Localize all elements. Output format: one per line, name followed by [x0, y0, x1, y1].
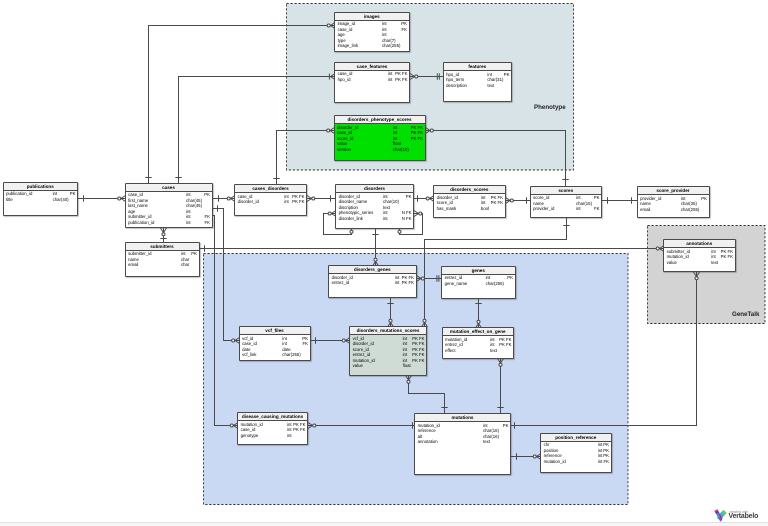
fk disorders_scores-scores	[506, 197, 531, 203]
table position_reference	[540, 433, 612, 474]
table vcf_files	[239, 326, 311, 361]
table disorders_phenotype_scores	[334, 115, 426, 161]
fk cases_disorders-disorders	[307, 195, 336, 201]
fk vcf_files-cases	[213, 205, 240, 343]
table publications	[3, 182, 79, 217]
fk disorders-self1	[324, 211, 354, 235]
table genes	[441, 266, 516, 299]
fk cases-publications	[78, 195, 126, 201]
subject area Phenotype	[287, 4, 574, 171]
table images	[334, 12, 410, 53]
vertabelo logo mark	[714, 509, 727, 522]
table disorders_mutations_scores	[349, 326, 427, 376]
fk annotations-submitters	[200, 245, 665, 251]
table score_provider	[637, 186, 710, 218]
tip overlap	[719, 517, 722, 522]
table disorders	[335, 184, 414, 229]
table features	[443, 62, 513, 102]
fk meog-mutations	[497, 359, 503, 415]
table disease_causing_mutations	[237, 412, 308, 445]
vertabelo wordmark	[729, 510, 748, 514]
fk annotations-mutations	[511, 272, 700, 429]
fk disorders_genes-disorders	[372, 229, 378, 267]
left ribbon (pink/purple/blue)	[714, 509, 722, 522]
fk dms-disorders_genes	[387, 298, 393, 328]
table case_features	[334, 62, 410, 103]
fk scores-score_provider	[602, 197, 638, 203]
label GeneTalk	[732, 311, 759, 318]
fk dcm-mutations	[308, 422, 415, 428]
fk meog-genes	[475, 299, 481, 329]
subject area GeneTalk	[648, 226, 766, 324]
fk case_features-features	[410, 73, 444, 79]
table mutations	[414, 413, 511, 475]
table cases	[125, 183, 213, 229]
subject area Genotype (blue)	[204, 254, 629, 505]
fk cases-submitters	[160, 228, 166, 243]
table scores	[530, 186, 603, 218]
fk cases_disorders-cases	[213, 195, 236, 201]
right ribbon (green/cyan/blue)	[717, 510, 727, 521]
fk dms-mutations	[406, 376, 448, 415]
fk dps-cases_disorders	[273, 128, 334, 186]
fk mutations-position_reference	[511, 453, 541, 459]
table disorders_genes	[328, 265, 417, 298]
fk disorders_genes-genes	[417, 275, 443, 281]
fk dms-scores	[422, 218, 570, 328]
table annotations	[663, 239, 736, 272]
fk dps-scores	[426, 128, 569, 187]
fk dms-vcf_files	[311, 337, 351, 343]
fk images-cases	[145, 23, 335, 184]
table mutation_effect_on_gene	[442, 327, 515, 359]
fk disorders_scores-disorders	[414, 195, 434, 201]
fk case_features-cases	[175, 74, 335, 184]
fk disorders-self2	[398, 211, 423, 235]
table submitters	[125, 242, 200, 277]
bottom bar	[0, 522, 768, 526]
table disorders_scores	[433, 185, 506, 218]
label Phenotype	[534, 104, 566, 111]
fk dcm-cases	[213, 216, 239, 429]
table cases_disorders	[234, 184, 307, 216]
